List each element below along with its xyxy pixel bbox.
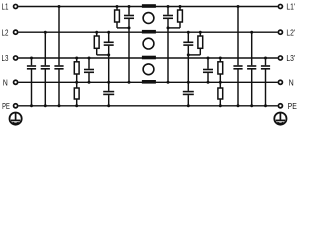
capacitor N-PE (left) — [103, 82, 114, 107]
wire C3 lead to N (right) — [207, 73, 209, 82]
resistor R2b (right snubber row 2) — [198, 31, 203, 49]
capacitor C1b (right snubber row 1) — [163, 5, 173, 18]
svg-text:L3: L3 — [2, 53, 9, 63]
wire rail L3 — [18, 57, 277, 59]
node label L2' — [286, 27, 295, 37]
node label N (right) — [289, 77, 294, 87]
svg-text:L2': L2' — [286, 27, 295, 37]
node snubber row 1 junction (left) — [128, 26, 131, 29]
resistor N-PE bleeder (right) — [218, 82, 223, 107]
capacitor Y-cap L1' to PE — [233, 5, 242, 107]
terminal PE (left) — [14, 104, 18, 108]
node R3-N junction (left) — [75, 81, 78, 84]
wire R3 lead to N (left) — [76, 74, 78, 82]
node on N at x=129.0 (left) — [128, 81, 131, 84]
node snubber row 1 junction (right) — [167, 26, 170, 29]
node on N at x=108.7 (left) — [107, 81, 110, 84]
svg-text:L2: L2 — [2, 27, 9, 37]
node R3-N junction (right) — [219, 81, 222, 84]
inductor choke on L3 — [142, 56, 156, 60]
node label L1 — [2, 2, 9, 12]
terminal L1 (right) — [278, 4, 282, 8]
wire rail L2 — [18, 31, 277, 33]
wire drop row 2 to N (left) — [108, 55, 110, 82]
svg-text:N: N — [289, 77, 294, 87]
terminal L3 (left) — [14, 56, 18, 60]
node C3-N junction (left) — [88, 81, 91, 84]
inductor choke on L1 — [142, 4, 156, 8]
wire R1-C1 bottom join (right) — [168, 19, 180, 28]
wire R2-C2 bottom join (left) — [97, 46, 109, 55]
node label L1' — [286, 2, 295, 12]
node on N at x=188.3 (right) — [187, 81, 190, 84]
capacitor C3b (right snubber row 3) — [203, 57, 213, 73]
capacitor Y-cap L2' to PE — [247, 31, 256, 108]
node label L3' — [286, 53, 295, 63]
node label L3 — [2, 53, 9, 63]
svg-text:L3': L3' — [286, 53, 295, 63]
svg-text:PE: PE — [2, 101, 10, 111]
capacitor Y-cap L2 to PE — [41, 31, 50, 108]
wire rail PE — [18, 105, 277, 107]
wire drop row 2 to N (right) — [187, 55, 189, 82]
indicator lamp circle 1 — [143, 13, 154, 24]
terminal L2 (left) — [14, 30, 18, 34]
wire R1-C1 bottom join (left) — [117, 19, 129, 28]
inductor choke on N — [142, 80, 156, 84]
capacitor C1a (left snubber row 1) — [124, 5, 134, 18]
node label PE (right) — [288, 101, 297, 111]
terminal N (right) — [278, 80, 282, 84]
terminal PE (right) — [278, 104, 282, 108]
node C3-N junction (right) — [207, 81, 210, 84]
indicator lamp circle 2 — [143, 38, 154, 49]
terminal L3 (right) — [278, 56, 282, 60]
capacitor C2b (right snubber row 2) — [183, 31, 193, 45]
terminal L2 (right) — [278, 30, 282, 34]
wire R2-C2 bottom join (right) — [188, 46, 200, 55]
svg-text:L1': L1' — [286, 2, 295, 12]
wire rail N — [18, 81, 277, 83]
node snubber row 2 junction (left) — [107, 53, 110, 56]
resistor R1b (right snubber row 1) — [178, 5, 183, 22]
resistor N-PE bleeder (left) — [74, 82, 79, 107]
svg-text:PE: PE — [288, 101, 297, 111]
node label N — [3, 77, 8, 87]
wire rail L1 — [18, 6, 277, 8]
node label L2 — [2, 27, 9, 37]
wire drop row 1 to N (left) — [128, 28, 130, 82]
wire R3 lead to N (right) — [219, 74, 221, 82]
resistor R2a (left snubber row 2) — [94, 31, 99, 49]
terminal N (left) — [14, 80, 18, 84]
node on N at x=168.0 (right) — [167, 81, 170, 84]
wire C3 lead to N (left) — [88, 73, 90, 82]
svg-text:L1: L1 — [2, 2, 9, 12]
capacitor Y-cap L1 to PE — [54, 5, 63, 107]
indicator lamp circle 3 — [143, 64, 154, 75]
node snubber row 2 junction (right) — [187, 53, 190, 56]
ground protective-earth symbol (left) — [10, 113, 22, 125]
ground protective-earth symbol (right) — [274, 113, 286, 125]
capacitor Y-cap L3' to PE — [261, 57, 270, 108]
capacitor Y-cap L3 to PE — [27, 57, 36, 108]
svg-text:N: N — [3, 77, 8, 87]
resistor R1a (left snubber row 1) — [115, 5, 120, 22]
node label PE — [2, 101, 10, 111]
resistor R3a (left snubber row 3) — [74, 57, 79, 75]
capacitor C3a (left snubber row 3) — [84, 57, 94, 73]
capacitor C2a (left snubber row 2) — [104, 31, 114, 45]
terminal L1 (left) — [14, 4, 18, 8]
wire drop row 1 to N (right) — [167, 28, 169, 82]
capacitor N-PE (right) — [183, 82, 194, 107]
inductor choke on L2 — [142, 30, 156, 34]
resistor R3b (right snubber row 3) — [218, 57, 223, 75]
